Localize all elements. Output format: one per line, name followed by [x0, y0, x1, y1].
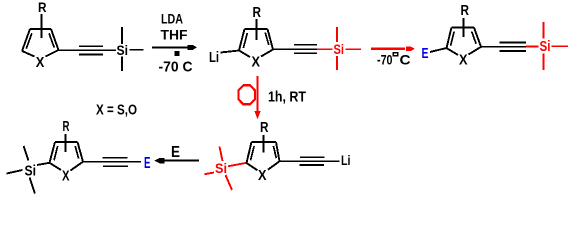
- arrow 3 shaft: [164, 160, 199, 162]
- bond Si-C2 (S5): [37, 163, 50, 165]
- red migration arrow head: [254, 111, 260, 119]
- svg-text:Li: Li: [341, 153, 351, 168]
- ring bond C3-C2 (S4): [247, 142, 252, 163]
- Si methyl bond down red (S3): [543, 54, 545, 71]
- ring bond C3-C2 (S2): [239, 29, 245, 51]
- bond X-C5 (S2): [261, 50, 273, 57]
- arrow 2 head red: [406, 46, 415, 51]
- Si methyl bond up red (S2): [336, 27, 338, 42]
- svg-text:R: R: [63, 118, 70, 135]
- alkyne center line black (S2): [273, 48, 317, 50]
- alkyne lower line (S2): [294, 52, 317, 54]
- bond R to ring (S4): [263, 135, 265, 153]
- alkyne upper line (S4): [300, 156, 325, 158]
- red migration arrow shaft: [256, 76, 258, 111]
- bond X-C2 (S2): [239, 51, 250, 58]
- svg-text:1h, RT: 1h, RT: [268, 90, 306, 106]
- degree square (arrow 2): [393, 53, 397, 56]
- ring bond C4-C5 (S2): [268, 29, 274, 50]
- inner double line right (S5): [75, 146, 78, 159]
- arrow 1 shaft: [152, 46, 188, 48]
- svg-text:X: X: [258, 168, 267, 184]
- ring bond C4-C5 (S5): [78, 142, 84, 162]
- Si methyl bond up red (S4): [220, 147, 223, 162]
- bond Li-C2 (S2): [221, 51, 240, 53]
- svg-text:X: X: [62, 169, 70, 185]
- inner double line right (S2): [265, 33, 269, 46]
- Si methyl bond up (S1): [121, 27, 123, 44]
- arrow 1 head: [188, 45, 198, 50]
- svg-text:E: E: [171, 144, 180, 161]
- ring bond C3-C2 (S5): [50, 142, 56, 163]
- svg-text:LDA: LDA: [161, 12, 183, 27]
- svg-text:Si: Si: [117, 42, 129, 58]
- bond X-C5 (S1): [46, 50, 59, 57]
- inner double line left (S1): [26, 33, 32, 48]
- svg-text:Si: Si: [334, 41, 345, 57]
- alkyne upper line (S2): [294, 44, 317, 46]
- alkyne center line (S1): [59, 49, 117, 51]
- bond X-C5 (S5): [71, 162, 84, 171]
- bond R to ring (S3): [463, 18, 465, 37]
- svg-text:Si: Si: [25, 163, 37, 180]
- svg-text:R: R: [461, 2, 470, 19]
- svg-text:E: E: [144, 155, 151, 172]
- bond X-C2 (S5): [50, 163, 62, 170]
- ring bond C3-C2 (S1): [22, 29, 30, 51]
- inner double line left (S4): [251, 146, 255, 160]
- ring bond C4-C5 (S4): [276, 142, 280, 161]
- alkyne upper line (S3): [500, 42, 527, 44]
- Si methyl bond down red (S4): [226, 175, 233, 190]
- bond R to ring (S2): [256, 19, 258, 40]
- svg-text:-70: -70: [377, 53, 393, 68]
- inner double line left (S3): [451, 32, 455, 46]
- svg-text:Si: Si: [215, 160, 227, 176]
- degree dot (arrow 1): [175, 51, 180, 56]
- alkyne center line (S5): [83, 161, 141, 163]
- svg-text:R: R: [253, 4, 262, 21]
- ring top bond (S5): [55, 141, 78, 143]
- svg-text:R: R: [260, 119, 269, 136]
- bond X-C5 (S4): [268, 161, 280, 170]
- ring top bond (S4): [252, 141, 277, 143]
- svg-text:R: R: [38, 0, 47, 15]
- Si methyl bond up red (S3): [543, 22, 545, 39]
- bond X-C5 (S3): [469, 47, 482, 55]
- alkyne upper line (S1): [79, 45, 103, 47]
- ring top bond (S1): [30, 28, 51, 30]
- alkyne lower line (S5): [103, 165, 128, 167]
- Si methyl bond down (S1): [121, 57, 123, 72]
- ring top bond (S3): [452, 27, 475, 29]
- inner double line left (S2): [243, 33, 247, 48]
- inner double line right (S4): [273, 146, 276, 158]
- bond X-C2 (S4): [247, 163, 258, 170]
- Si methyl bond down (S5): [30, 178, 36, 194]
- ring top bond (S2): [245, 28, 268, 30]
- Si methyl bond right red (S3): [552, 45, 569, 47]
- Si methyl bond left (S5): [7, 170, 23, 174]
- svg-text:C: C: [400, 53, 411, 68]
- svg-text:-70 C: -70 C: [159, 59, 193, 76]
- svg-text:X: X: [36, 54, 45, 71]
- alkyne lower line (S3): [500, 50, 527, 52]
- bond E-C2 (S3): [430, 48, 447, 52]
- bond X-C2 (S1): [22, 51, 35, 57]
- Si methyl bond right (S1): [130, 49, 144, 51]
- inner double line right (S1): [49, 33, 54, 47]
- Si methyl bond down red (S2): [336, 56, 338, 70]
- arrow 3 head: [154, 158, 164, 163]
- svg-text:E: E: [422, 45, 429, 62]
- alkyne upper line (S5): [103, 157, 128, 159]
- alkyne lower line (S1): [79, 54, 103, 56]
- svg-text:THF: THF: [161, 28, 188, 43]
- alkyne center line black (S3): [481, 46, 526, 48]
- svg-text:Si: Si: [540, 39, 551, 55]
- Si methyl bond left red (S4): [205, 173, 215, 175]
- alkyne lower line (S4): [300, 164, 325, 166]
- inner double line left (S5): [54, 146, 58, 160]
- red migration arrow loop: [238, 85, 255, 104]
- svg-text:X = S,O: X = S,O: [96, 103, 137, 119]
- ring bond C4-C5 (S3): [474, 28, 481, 47]
- bond R to ring (S1): [41, 14, 43, 38]
- bond X-C2 (S3): [447, 48, 459, 55]
- alkyne center line (S4): [280, 160, 340, 162]
- inner double line right (S3): [472, 32, 476, 44]
- ring bond C3-C2 (S3): [447, 28, 452, 49]
- red bond alkyne-Si (S3): [526, 46, 539, 48]
- Si methyl bond up (S5): [24, 146, 29, 161]
- arrow 2 shaft red: [371, 48, 405, 50]
- svg-text:Li: Li: [209, 49, 219, 66]
- Si methyl bond right red (S2): [346, 48, 362, 50]
- red bond alkyne-Si (S2): [317, 48, 333, 50]
- bond R to ring (S5): [65, 134, 67, 152]
- svg-text:X: X: [252, 55, 261, 71]
- svg-text:X: X: [459, 53, 468, 69]
- red bond Si-C2 (S4): [228, 163, 247, 167]
- ring bond C4-C5 (S1): [51, 29, 59, 50]
